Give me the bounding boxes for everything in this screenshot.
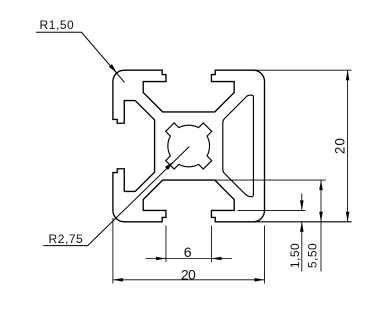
leader R2,75 [43, 147, 189, 246]
leader R1,50 [36, 32, 125, 82]
svg-text:R1,50: R1,50 [40, 18, 75, 32]
dim 20 right: extension lines [253, 69, 352, 71]
core bore R2.75 with 4 diagonal notches [166, 123, 212, 169]
dim 20 right: dimension line [347, 70, 349, 222]
svg-text:6: 6 [184, 244, 192, 260]
svg-text:20: 20 [181, 266, 196, 282]
dim 20 bottom: dimension line [113, 279, 265, 281]
profile outer outline with T-slots top/left/bottom [113, 70, 265, 222]
dim 5,50: dimension line [320, 180, 322, 271]
dim 20 bottom: extension lines [112, 218, 114, 284]
closed-side cavity (right) [223, 95, 254, 197]
dim 1,50: extension line (lip surface) [238, 209, 306, 211]
dim 5,50: extension line (slot floor) [215, 179, 326, 181]
svg-text:5,50: 5,50 [305, 243, 319, 268]
dim 6: extension lines from slot noses [165, 226, 167, 263]
svg-text:1,50: 1,50 [288, 243, 302, 268]
dim 6: dimension line with outside arrows [146, 258, 233, 260]
svg-text:20: 20 [333, 137, 348, 154]
svg-text:R2,75: R2,75 [49, 232, 84, 246]
dim 1,50: dimension line with outside arrows [301, 194, 303, 211]
